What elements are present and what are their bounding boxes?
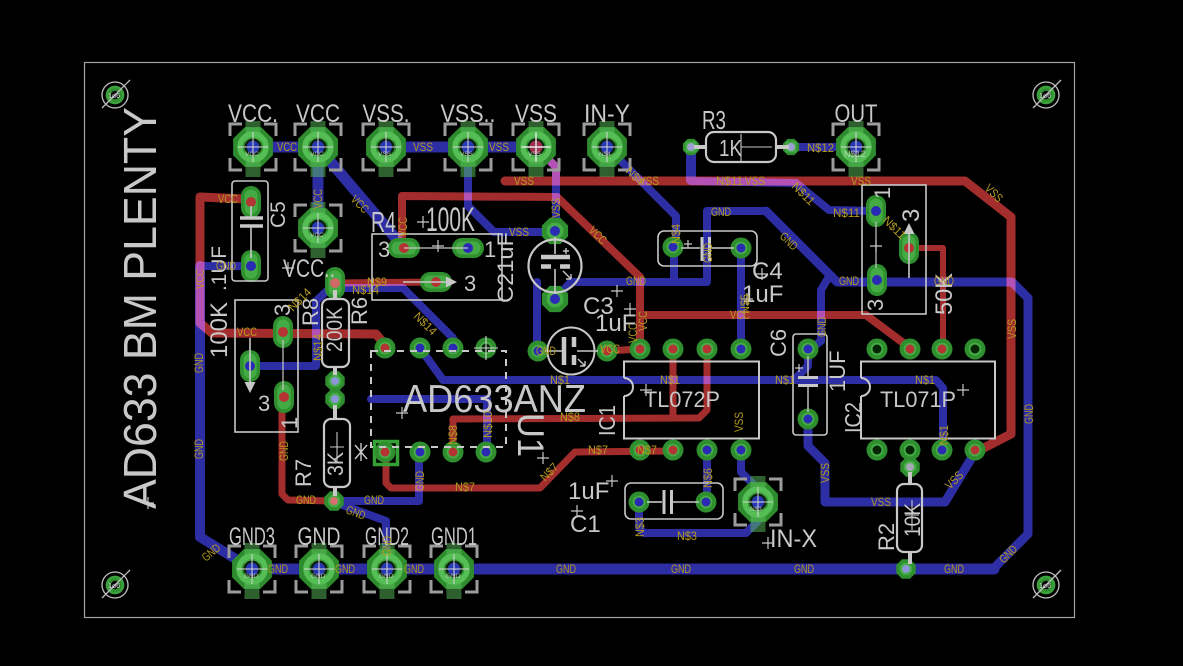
svg-text:N$3: N$3 [750, 506, 762, 513]
svg-text:GND: GND [671, 562, 691, 576]
svg-text:R7: R7 [291, 459, 316, 487]
svg-text:R2: R2 [874, 523, 899, 551]
svg-text:N$11: N$11 [716, 174, 743, 188]
svg-text:VCC: VCC [237, 325, 257, 339]
wire VCC R4.3 riser [402, 196, 557, 245]
svg-text:VSS: VSS [732, 412, 746, 432]
svg-text:R3: R3 [702, 105, 726, 135]
svg-text:VCC: VCC [277, 140, 297, 154]
wire GND U1 pad2 down [336, 452, 419, 501]
wire N$6 IC1.3 to C1.2 [703, 452, 711, 501]
svg-text:U1: U1 [510, 413, 551, 457]
origin cross C1 [571, 475, 618, 517]
wire N$1 U1 pin to IC2 pin [420, 348, 943, 449]
svg-text:N$10: N$10 [481, 411, 495, 438]
wire N$11 R5.2 to IC2.3 [909, 248, 943, 348]
svg-text:1: 1 [277, 417, 302, 429]
svg-text:VCC.: VCC. [228, 100, 278, 128]
svg-text:N$1: N$1 [660, 373, 680, 387]
trimmer R6 pads [273, 316, 293, 348]
wire N$5 C4.2 to IC1.4 [737, 250, 745, 348]
board outline [85, 63, 1075, 618]
resistor R2 outline [897, 484, 922, 552]
wire GND bottom bus [252, 564, 994, 575]
svg-text:VSS: VSS [871, 495, 891, 509]
IC U1 dashed outline [371, 351, 506, 447]
origin cross C3 [611, 285, 636, 315]
svg-text:VSS: VSS [515, 100, 557, 128]
wire N$4 under C4.1 to GND rail [670, 250, 678, 279]
svg-text:VSS: VSS [460, 151, 474, 158]
svg-text:VSS: VSS [489, 140, 509, 154]
svg-text:N$1: N$1 [915, 373, 935, 387]
wire GND drop to C3.1 [533, 282, 541, 344]
svg-text:GND: GND [413, 471, 427, 491]
svg-text:N$8: N$8 [560, 410, 580, 424]
svg-text:GND: GND [277, 441, 291, 461]
BLUE TRACES (bottom layer) [200, 147, 1028, 569]
wire GND riser x707 [707, 211, 766, 282]
svg-text:VCC..: VCC.. [283, 255, 335, 283]
svg-text:N$1: N$1 [775, 373, 795, 387]
capacitor C2 outline [529, 240, 582, 293]
wire VCC main diagonal [557, 197, 640, 344]
wire N$7 U1.1 to IC1 bottom pads [386, 451, 676, 488]
svg-text:VSS: VSS [514, 174, 534, 188]
svg-text:N$12: N$12 [807, 141, 834, 155]
PADS [102, 80, 1061, 599]
svg-text:VCC: VCC [296, 100, 340, 128]
pad IN-X [735, 479, 781, 525]
capacitor C5 outline [232, 181, 268, 281]
svg-text:GND: GND [701, 243, 715, 263]
svg-text:GND: GND [268, 562, 288, 576]
svg-text:GND1: GND1 [431, 523, 477, 551]
svg-text:GND: GND [711, 205, 731, 219]
IC2 outline [861, 362, 995, 439]
asterisk mark [355, 443, 367, 461]
origin cross board text [142, 497, 154, 509]
trimmer R5 pads [866, 195, 886, 227]
svg-text:GND: GND [364, 493, 384, 507]
svg-text:VCC: VCC [311, 189, 325, 209]
fiducial bottom-left [102, 570, 130, 598]
wire VCC pad2 to VCC.. pad [313, 147, 324, 228]
capacitor C1 outline [625, 483, 723, 519]
wire VSS.. down to C2 top [468, 147, 549, 232]
wire N$8 IC1.3 riser [699, 350, 707, 418]
svg-text:GND: GND [815, 317, 829, 337]
svg-text:N$7: N$7 [637, 443, 657, 457]
pad VSS. [363, 124, 409, 170]
svg-text:R4: R4 [371, 207, 396, 239]
capacitor C2 pads [542, 218, 568, 244]
pad GND [296, 546, 342, 592]
wire VSS pad diagonal [536, 147, 556, 181]
IC2 pads bottom row [867, 440, 888, 461]
wire GND C2- to rail [555, 282, 705, 299]
trimmer R6 outline [235, 300, 298, 432]
IC U1 pads bottom row [375, 442, 398, 465]
wire VCC branch to IC2.2 [640, 315, 910, 348]
origin cross IC2 [957, 384, 969, 396]
origin cross VCC.. [282, 262, 294, 274]
RED TRACES (top layer) [200, 147, 1011, 501]
pad OUT [833, 124, 879, 170]
svg-text:N$4: N$4 [599, 151, 611, 158]
IC1 outline [624, 362, 759, 439]
fiducial top-left [102, 80, 130, 108]
svg-text:GND: GND [296, 493, 316, 507]
svg-text:100K: 100K [206, 302, 233, 358]
svg-text:VCC: VCC [396, 217, 410, 237]
svg-text:1UF: 1UF [825, 350, 850, 392]
wire VSS pads 3-4-5 [386, 142, 468, 153]
svg-text:N$8: N$8 [446, 425, 460, 445]
wire GND C5.2 stub [203, 262, 251, 270]
svg-text:1K: 1K [719, 135, 743, 161]
svg-text:TL072P: TL072P [644, 387, 720, 412]
IC1 pads bottom row [630, 440, 651, 461]
svg-text:VCC: VCC [310, 151, 324, 158]
svg-text:GND: GND [379, 573, 394, 580]
svg-text:N$3: N$3 [633, 517, 647, 537]
svg-text:N$3: N$3 [677, 529, 697, 543]
svg-text:VCC: VCC [193, 269, 207, 289]
resistor R8 outline [322, 299, 349, 367]
svg-text:GND: GND [311, 573, 326, 580]
svg-text:GND: GND [536, 344, 556, 358]
wire GND R6.1 to via [282, 399, 332, 501]
wire N$11 under VSS rail from R3.1 [691, 181, 796, 183]
pad VCC.. [295, 205, 341, 251]
wire GND diagonal to right rail [766, 211, 1028, 568]
svg-text:1: 1 [870, 187, 895, 199]
fiducial bottom-right [1033, 570, 1061, 598]
svg-text:200K: 200K [322, 307, 347, 352]
wire N$9 R8.1 to R4.2 [335, 282, 436, 283]
svg-text:GND: GND [934, 274, 954, 288]
svg-text:3: 3 [378, 237, 390, 262]
svg-text:VSS..: VSS.. [441, 100, 496, 128]
origin cross U1 label [537, 452, 549, 464]
tiny pad texts [244, 149, 866, 580]
pad GND3 [229, 546, 275, 592]
wire VSS from IC1.4 [741, 452, 770, 501]
svg-text:VSS: VSS [413, 140, 433, 154]
svg-text:VSS.: VSS. [363, 100, 410, 128]
resistor R3 outline [706, 132, 776, 162]
capacitor C4 outline [658, 231, 757, 266]
wire N$1 branch to C6.1 [794, 351, 808, 380]
svg-text:IN-Y: IN-Y [584, 100, 630, 128]
svg-text:N$12: N$12 [844, 149, 866, 159]
wire R3.1 stub [686, 147, 696, 180]
svg-text:GND: GND [839, 274, 859, 288]
SILKSCREEN [142, 132, 995, 564]
pad VSS.. [445, 124, 491, 170]
wire N$11 diagonal to R5.1 [796, 183, 872, 211]
svg-text:3K: 3K [323, 452, 348, 476]
wire R8.2 to R7.1 stub [332, 381, 339, 399]
capacitor C5 pads [241, 186, 261, 218]
svg-text:GND: GND [944, 562, 964, 576]
svg-text:GND: GND [192, 439, 206, 459]
wire N$4 from IN-Y to C4.1 [607, 147, 676, 244]
svg-text:3: 3 [863, 299, 888, 311]
svg-text:GND: GND [626, 274, 646, 288]
resistor R7 outline [324, 419, 350, 487]
svg-text:10K: 10K [900, 503, 925, 537]
wire N$10 to U1 pad [371, 399, 487, 448]
resistor R3 pads [683, 139, 699, 155]
wire VSS pad down to C2 via [536, 147, 556, 226]
wire VCC pad1-pad2 [253, 142, 318, 153]
svg-text:GND: GND [244, 573, 259, 580]
svg-text:VSS: VSS [509, 225, 529, 239]
svg-text:VSS: VSS [745, 174, 765, 188]
wire GND branch to C6.1 [810, 275, 830, 349]
svg-text:3: 3 [464, 271, 476, 296]
svg-text:GND: GND [216, 259, 236, 273]
svg-text:VSS: VSS [818, 463, 832, 483]
trimmer R4 pads [388, 238, 420, 258]
pad VSS [513, 124, 559, 170]
wire VCC diagonal to R4 pin3 [318, 147, 404, 248]
capacitor C6 pads [798, 339, 819, 360]
svg-text:VCC: VCC [218, 192, 238, 206]
svg-text:VSS: VSS [549, 198, 563, 218]
svg-text:GND3: GND3 [229, 523, 275, 551]
svg-text:VSS: VSS [528, 151, 542, 158]
pad VCC. [230, 124, 276, 170]
svg-text:N$1: N$1 [550, 373, 570, 387]
pad GND2 [364, 546, 410, 592]
svg-text:C1: C1 [570, 511, 601, 538]
resistor R2 pads [900, 457, 919, 476]
wire N$10 via stub [330, 395, 341, 403]
svg-text:GND: GND [335, 562, 355, 576]
wire N$12 R3.2 to OUT [791, 143, 856, 151]
svg-text:VSS: VSS [1005, 319, 1019, 339]
NET LABELS [192, 140, 1036, 576]
svg-text:GND: GND [380, 536, 394, 556]
svg-text:VCC: VCC [636, 311, 650, 331]
svg-text:OUT: OUT [835, 100, 878, 128]
capacitor C3 pads [528, 341, 549, 362]
capacitor C3 outline [548, 328, 595, 375]
IC1 pads top row [630, 339, 651, 360]
wire N$8 U1.pad to IC1 pads [453, 418, 697, 450]
svg-text:GND: GND [404, 562, 424, 576]
origin cross IN-X [762, 537, 774, 549]
svg-text:VCC: VCC [600, 342, 620, 356]
svg-text:C21uF: C21uF [493, 232, 518, 303]
pad VCC [295, 124, 341, 170]
svg-text:GND: GND [1022, 404, 1036, 424]
capacitor C1 pads [629, 492, 650, 513]
svg-text:GND: GND [192, 353, 206, 373]
svg-text:N$4: N$4 [669, 224, 683, 244]
origin cross C4 [741, 268, 768, 305]
svg-text:N$11: N$11 [833, 206, 860, 220]
svg-text:R6: R6 [347, 297, 372, 325]
capacitor C6 outline [793, 334, 827, 435]
svg-text:N$14: N$14 [311, 334, 325, 361]
IC2 pads top row [867, 339, 888, 360]
wire N$14 from R6.2 to U1 pad [250, 288, 453, 366]
origin cross U1 [396, 407, 408, 419]
svg-text:3: 3 [258, 391, 270, 416]
trimmer R5 outline [862, 185, 926, 314]
svg-text:IC1: IC1 [594, 405, 620, 436]
svg-text:1uF: 1uF [568, 478, 609, 505]
resistor R7 pads [325, 389, 344, 408]
origin cross IC1 [640, 384, 652, 396]
svg-text:N$14: N$14 [352, 283, 379, 297]
svg-text:AD633 BM PLENTY: AD633 BM PLENTY [114, 107, 166, 509]
wire GND left riser [200, 266, 252, 569]
wire VCC left loop C5.1 to R6.1 [200, 197, 386, 346]
svg-text:GND: GND [556, 562, 576, 576]
svg-text:IN-X: IN-X [770, 525, 817, 553]
svg-text:GND: GND [794, 562, 814, 576]
svg-text:IC2: IC2 [840, 402, 866, 433]
svg-text:N$7: N$7 [588, 443, 608, 457]
svg-text:VCC: VCC [245, 151, 259, 158]
pad GND1 [431, 546, 477, 592]
svg-text:N$1: N$1 [937, 425, 951, 445]
wire VSS C6.2 down to R2 region [808, 419, 974, 502]
wire GND via to GND2 pad [337, 503, 386, 568]
resistor R8 pads [325, 267, 345, 299]
svg-text:GND: GND [446, 573, 461, 580]
svg-text:VSS: VSS [378, 151, 392, 158]
svg-text:C6: C6 [766, 329, 791, 357]
wire VCC C3.2 to IC1.1 [608, 349, 639, 351]
svg-text:N$6: N$6 [701, 468, 715, 488]
svg-text:100K: 100K [426, 201, 475, 239]
fiducial top-right [1033, 80, 1061, 108]
svg-text:VSS: VSS [851, 174, 871, 188]
IC U1 pads top row [375, 338, 396, 359]
trimmer R4 outline [372, 234, 502, 300]
svg-text:VCC: VCC [310, 232, 324, 239]
svg-text:TL071P: TL071P [880, 387, 956, 412]
svg-text:N$5: N$5 [738, 294, 752, 314]
svg-text:GND: GND [298, 523, 341, 551]
wire N$3 C1.1 to IN-X [639, 504, 758, 533]
pad IN-Y [584, 124, 630, 170]
wire VSS main horizontal [505, 181, 1011, 452]
capacitor C4 pads [663, 237, 684, 258]
wire N$8 IC1.2 riser [670, 350, 677, 417]
svg-text:C5: C5 [267, 201, 290, 228]
svg-text:3: 3 [898, 209, 925, 222]
svg-text:N$7: N$7 [455, 480, 475, 494]
